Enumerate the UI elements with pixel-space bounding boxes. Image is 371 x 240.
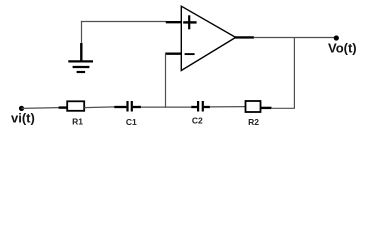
resistor R2 (246, 101, 261, 112)
pin stub C2 left (191, 106, 197, 108)
wire output horizontal to Vo node (254, 37, 337, 39)
pin stub output (235, 36, 254, 38)
resistor R1 (67, 101, 84, 111)
wire right vertical riser (293, 38, 295, 109)
wire top horizontal from ground riser to op-amp + input (81, 21, 166, 23)
capacitor C1 (128, 101, 132, 112)
pin stub R2 right (260, 107, 271, 109)
node vi(t) dot (19, 106, 24, 111)
wire R1 to C1 (84, 106, 115, 109)
pin stub C2 right (204, 106, 210, 108)
svg-text:C2: C2 (192, 115, 203, 125)
svg-text:R2: R2 (248, 117, 259, 127)
pin stub - input (165, 53, 181, 55)
svg-text:Vo(t): Vo(t) (328, 40, 357, 55)
wire feedback vertical from - input down to C1/C2 node (165, 53, 167, 108)
pin stub + input (166, 21, 182, 23)
node Vo(t) dot (334, 35, 339, 40)
wire vi to R1 (22, 107, 60, 110)
pin stub R1 left (59, 106, 68, 108)
op-amp U1 (181, 6, 235, 70)
wire left vertical down to ground (81, 21, 83, 44)
capacitor C2 (198, 101, 203, 112)
svg-text:R1: R1 (72, 117, 83, 127)
wire C2 to R2 (210, 106, 247, 108)
wire R2 to riser corner (271, 107, 295, 109)
svg-text:C1: C1 (126, 117, 137, 127)
svg-text:vi(t): vi(t) (11, 110, 35, 125)
pin stub C1 right (133, 106, 141, 108)
pin stub C1 left (114, 106, 126, 108)
wire C1 to node to C2 (141, 106, 192, 108)
ground (68, 43, 93, 72)
